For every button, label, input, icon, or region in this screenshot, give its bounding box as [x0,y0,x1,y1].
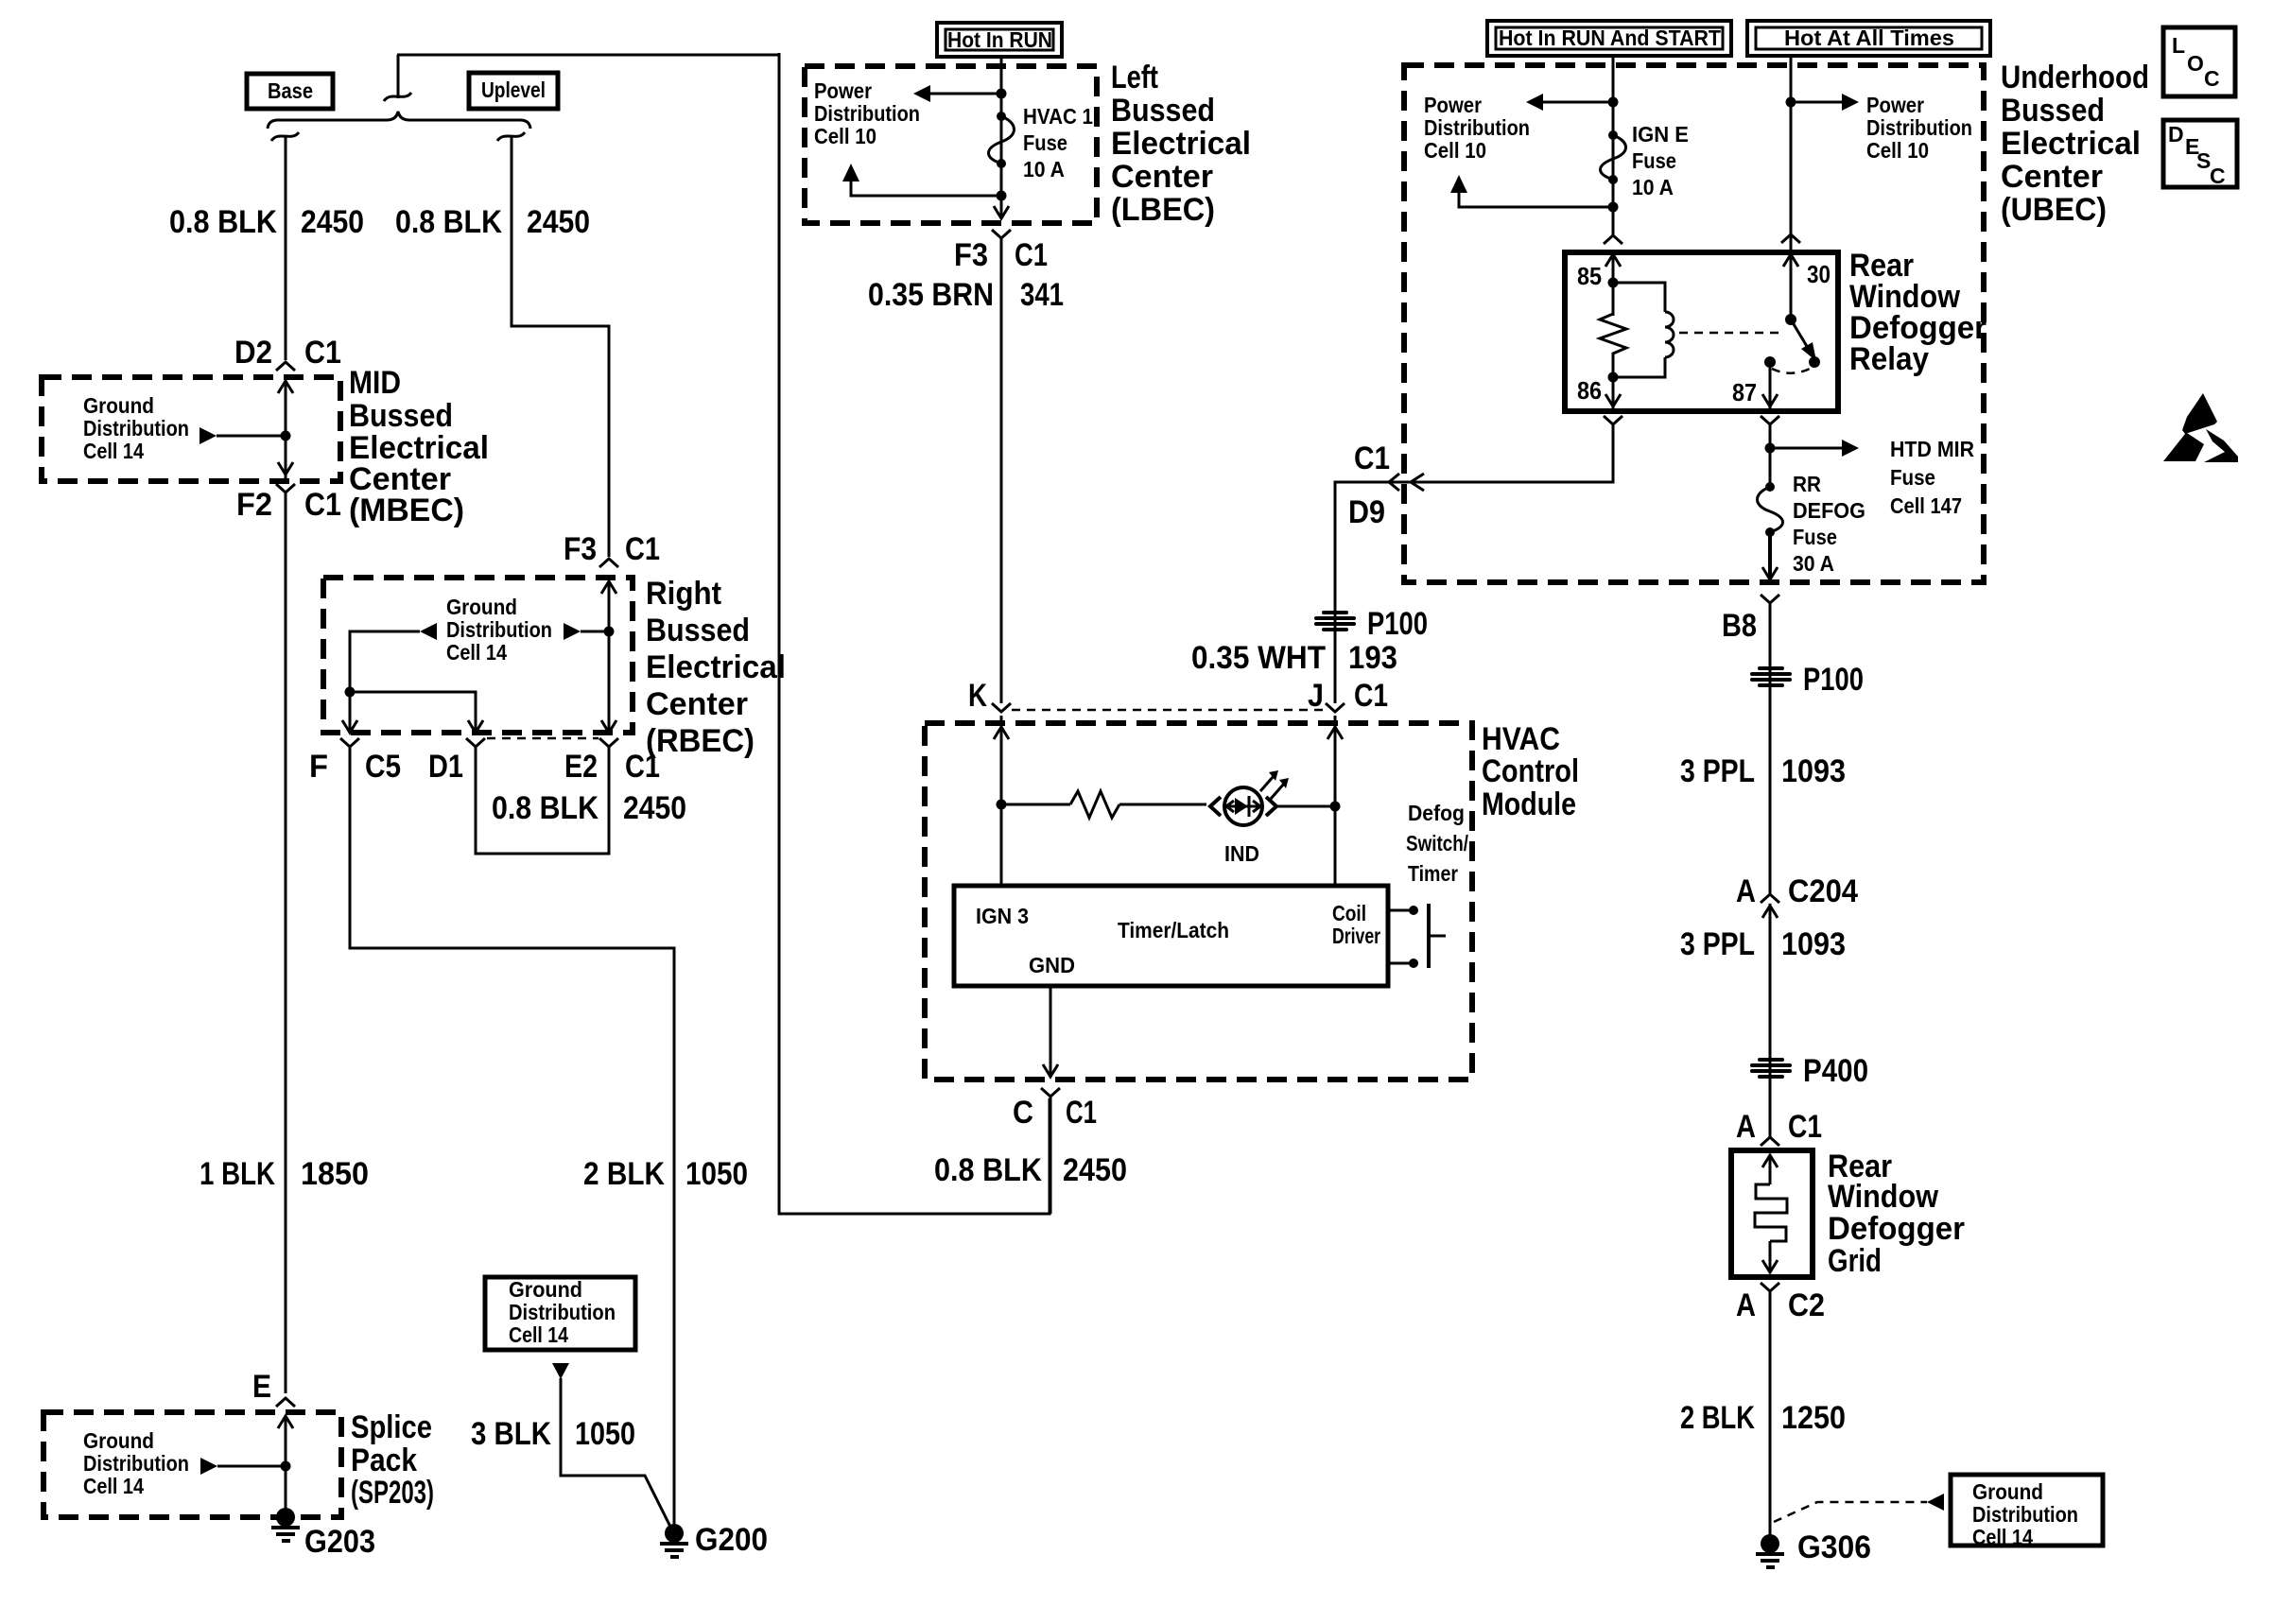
svg-text:0.35 BRN: 0.35 BRN [868,277,994,313]
svg-text:Splice: Splice [351,1409,432,1445]
svg-text:Distribution: Distribution [83,1451,189,1476]
wire jumper E2 to D1 [476,747,609,854]
wire J entering HVAC with arrow [1327,716,1343,886]
svg-text:10 A: 10 A [1023,157,1065,181]
svg-text:Hot In RUN And START: Hot In RUN And START [1499,26,1721,50]
connector arrow D9 into C1 [1411,474,1424,491]
svg-text:Grid: Grid [1828,1243,1882,1279]
svg-text:Left: Left [1111,60,1158,95]
svg-text:341: 341 [1020,277,1064,313]
svg-text:K: K [968,678,987,714]
svg-text:IND: IND [1224,841,1259,866]
fuse IGN E [1601,130,1626,184]
RBEC dashed box [323,578,633,733]
svg-text:1 BLK: 1 BLK [200,1156,275,1192]
relay box [1565,252,1838,411]
connector chevron E [276,1398,295,1407]
wire C204 to grid [1769,904,1772,1137]
inline connector P400 [1750,1058,1792,1079]
wire 2 BLK 1250 to G306 [1769,1291,1772,1541]
relay pin 85 wire with arrow [1605,254,1621,316]
option box Uplevel [469,73,558,109]
svg-text:Cell 10: Cell 10 [1866,138,1929,163]
svg-text:F2: F2 [236,487,272,523]
LOC box [2163,27,2235,96]
svg-text:Control: Control [1482,753,1579,789]
svg-text:Defogger: Defogger [1828,1211,1965,1247]
wire D9 to P100 to HVAC J [1335,482,1411,703]
svg-text:0.8 BLK: 0.8 BLK [934,1152,1042,1188]
junction node K-resistor [997,800,1007,810]
power distribution text (LBEC) [814,78,920,148]
inline connector P100 [1750,666,1792,687]
rear window defogger grid box [1731,1150,1813,1277]
arrow to HTD MIR fuse [1770,440,1859,457]
svg-text:2450: 2450 [301,204,364,240]
wire GND leaving HVAC with arrow [1043,986,1058,1077]
coil driver stub lower [1388,959,1418,968]
svg-text:Driver: Driver [1332,924,1380,948]
svg-text:O: O [2187,51,2204,76]
banner box Hot In RUN And START [1487,21,1731,56]
svg-text:C: C [2210,164,2226,188]
svg-text:E2: E2 [564,749,598,785]
connector chevron D2/C1 [276,362,295,371]
svg-text:3 PPL: 3 PPL [1680,926,1755,962]
thin dashed connector line K-J [1012,709,1326,712]
svg-text:Distribution: Distribution [83,416,189,441]
svg-text:(RBEC): (RBEC) [646,723,755,759]
relay pin 87 wire with arrow [1762,362,1778,409]
svg-text:Electrical: Electrical [2001,126,2141,162]
svg-text:3 BLK: 3 BLK [471,1416,551,1452]
connector chevron C/C1 [1041,1088,1060,1097]
svg-text:Uplevel: Uplevel [481,78,546,102]
junction node IGN E top [1608,97,1619,108]
svg-text:C1: C1 [304,487,341,523]
svg-text:Bussed: Bussed [646,613,750,648]
svg-text:Power: Power [814,78,872,103]
svg-text:Ground: Ground [446,595,517,619]
svg-text:G203: G203 [304,1524,375,1560]
ESD warning symbol [2163,393,2238,462]
fuse label HVAC 1 Fuse 10 A [1023,104,1093,181]
svg-text:B8: B8 [1722,608,1757,644]
svg-text:Right: Right [646,576,721,612]
grid title [1828,1149,1965,1279]
wire 3 BLK to G200 [561,1378,671,1529]
relay coil resistor [1600,288,1626,377]
connector chevron below 86 [1604,416,1622,424]
relay title [1849,248,1987,377]
svg-text:HVAC 1: HVAC 1 [1023,104,1093,129]
svg-text:F3: F3 [954,237,988,273]
svg-text:Cell 14: Cell 14 [1972,1525,2033,1549]
UBEC dashed box [1404,65,1984,582]
wire Uplevel drop to RBEC F3 [512,137,609,557]
svg-text:Distribution: Distribution [1424,115,1530,140]
brace joining Base and Uplevel [268,112,530,129]
arrow leaving RBEC at F [342,720,357,733]
svg-text:10 A: 10 A [1632,175,1674,199]
SP203 dashed box [43,1412,341,1517]
wire 86 to D9/C1 [1388,424,1613,482]
svg-text:Cell 10: Cell 10 [1424,138,1486,163]
connector chevron K [992,703,1011,712]
svg-text:(LBEC): (LBEC) [1111,192,1215,228]
relay armature dashed link [1679,332,1783,335]
svg-text:C1: C1 [1788,1109,1822,1145]
svg-text:G200: G200 [695,1522,768,1558]
label Defog Switch/Timer [1406,801,1468,886]
arrow leaving LBEC bottom [994,206,1009,218]
svg-text:Distribution: Distribution [1866,115,1972,140]
svg-text:Bussed: Bussed [1111,93,1215,129]
svg-text:Window: Window [1828,1179,1938,1215]
junction node 30 top [1786,97,1796,108]
svg-text:Coil: Coil [1332,901,1366,925]
svg-text:DEFOG: DEFOG [1793,498,1865,523]
svg-text:C: C [1013,1095,1033,1131]
svg-text:Cell 14: Cell 14 [83,439,144,463]
svg-text:E: E [252,1369,271,1405]
svg-text:C1: C1 [1066,1095,1097,1131]
power distribution text (UBEC left) [1424,93,1530,163]
RBEC title [646,576,786,759]
junction node 85 [1608,278,1619,288]
svg-text:Power: Power [1866,93,1924,117]
junction node on J wire [1330,802,1341,812]
svg-text:30: 30 [1807,260,1831,288]
option box Base [247,74,333,109]
connector chevron below 87 [1761,416,1779,424]
relay contact 87 [1764,356,1776,368]
svg-text:HVAC: HVAC [1482,721,1560,757]
wire B8 to C204 [1769,603,1772,893]
svg-text:P100: P100 [1367,606,1428,642]
svg-text:Cell 14: Cell 14 [446,640,507,665]
connector chevron E2/C1 [599,738,618,747]
svg-text:2450: 2450 [527,204,590,240]
junction node LBEC top [997,89,1007,99]
LBEC title [1111,60,1251,228]
svg-text:0.8 BLK: 0.8 BLK [492,790,599,826]
branch to power distribution up-arrow (LBEC) [842,164,1001,196]
svg-text:1250: 1250 [1781,1400,1846,1436]
arrow leaving RBEC at D1 [468,720,483,733]
svg-text:J: J [1308,678,1324,714]
svg-text:A: A [1736,873,1756,909]
junction node 86 [1608,372,1619,383]
svg-text:(MBEC): (MBEC) [349,492,464,528]
inline connector P100 (J branch) [1314,611,1356,631]
svg-text:Cell 10: Cell 10 [814,124,876,148]
svg-text:(UBEC): (UBEC) [2001,192,2107,228]
svg-text:Power: Power [1424,93,1482,117]
svg-text:Timer/Latch: Timer/Latch [1118,918,1229,942]
svg-text:IGN 3: IGN 3 [976,904,1029,928]
svg-text:F3: F3 [564,531,597,567]
svg-text:30 A: 30 A [1793,551,1834,576]
wire break tilde Base [271,132,299,141]
svg-text:Hot In RUN: Hot In RUN [947,27,1052,52]
svg-text:C2: C2 [1788,1287,1825,1323]
arrow to power distribution (UBEC left) [1526,94,1613,111]
wire from Hot At All Times [1790,56,1793,234]
svg-text:1050: 1050 [575,1416,635,1452]
svg-text:Defog: Defog [1408,801,1465,825]
svg-text:Center: Center [1111,159,1213,195]
svg-text:2 BLK: 2 BLK [1680,1400,1755,1436]
arrow to power distribution (UBEC right) [1791,94,1859,111]
wire IND to J [1277,805,1335,808]
svg-text:Bussed: Bussed [2001,93,2105,129]
svg-text:Distribution: Distribution [814,101,920,126]
wire stub above brace center [397,55,400,98]
fuse label IGN E Fuse 10 A [1632,122,1689,199]
UBEC title [2001,60,2149,228]
dashed link to ground distribution (G306) [1774,1494,1944,1522]
svg-text:Module: Module [1482,786,1576,822]
connector chevron A/C1 grid [1761,1137,1779,1146]
junction node below fuse (LBEC) [997,191,1007,201]
junction node below IGN E fuse [1608,202,1619,213]
ground distribution text (SP203) [83,1428,189,1498]
wire Base drop to MBEC [285,137,287,360]
connector chevron J [1326,703,1345,712]
timer/latch box [954,886,1388,986]
connector A/C204 [1761,894,1779,918]
ground distribution text (MBEC) [83,393,189,463]
branch to power distribution up-arrow (UBEC) [1450,175,1613,207]
svg-text:F: F [309,749,328,785]
banner box Hot In RUN [937,23,1062,57]
ground G200 [660,1524,688,1557]
svg-text:D: D [2168,122,2184,147]
splice pack title [351,1409,434,1511]
svg-text:L: L [2172,33,2185,58]
svg-text:P400: P400 [1803,1053,1868,1089]
connector chevron B8 [1761,595,1779,603]
relay pin 86 wire with arrow [1605,377,1621,409]
svg-text:C1: C1 [304,335,341,371]
svg-text:Switch/: Switch/ [1406,831,1468,855]
svg-text:C1: C1 [1015,237,1048,273]
svg-text:D9: D9 [1348,494,1385,530]
svg-text:Cell 147: Cell 147 [1890,493,1962,518]
svg-text:Base: Base [268,78,313,103]
svg-text:D1: D1 [428,749,463,785]
arrow to ground distribution (SP203) [200,1458,291,1475]
connector chevron 85 input [1604,235,1622,244]
svg-text:G306: G306 [1797,1529,1871,1565]
svg-text:A: A [1736,1109,1756,1145]
coil driver stub upper [1388,906,1418,915]
svg-text:2450: 2450 [623,790,686,826]
svg-text:Distribution: Distribution [1972,1502,2078,1527]
resistor (IND feed) [1001,791,1206,818]
defog switch button [1429,904,1446,968]
relay coil [1613,283,1674,377]
connector chevron F3/C1 RBEC [599,559,618,567]
svg-text:Relay: Relay [1849,341,1929,377]
MBEC dashed box [42,377,340,481]
svg-text:C204: C204 [1788,873,1858,909]
svg-text:Ground: Ground [509,1277,582,1302]
svg-text:Ground: Ground [1972,1479,2043,1504]
wire F/C5 down to G200 [350,747,674,1529]
MBEC title [349,365,489,528]
svg-text:Ground: Ground [83,393,154,418]
svg-text:Bussed: Bussed [349,398,453,434]
arrow leaving RBEC at E2 [601,720,616,733]
connector chevron F2/C1 [276,484,295,492]
fuse RR DEFOG [1758,482,1783,537]
LBEC dashed box [805,66,1097,223]
indicator lamp IND [1210,770,1289,825]
fuse HVAC 1 [989,112,1015,168]
junction node inside RBEC [345,687,477,734]
arrow to power distribution (LBEC) [913,85,1001,102]
svg-text:1050: 1050 [685,1156,748,1192]
svg-text:Fuse: Fuse [1023,130,1067,155]
wire break tilde above brace [384,93,411,101]
thin dashed connector line D1-E2 [487,737,599,740]
svg-text:Cell 14: Cell 14 [83,1474,144,1498]
svg-text:193: 193 [1348,640,1397,676]
label RR DEFOG Fuse 30 A [1793,472,1865,576]
wire entering RBEC with arrow [601,581,616,733]
svg-text:0.8 BLK: 0.8 BLK [395,204,502,240]
wire K entering HVAC with arrow [994,716,1009,886]
svg-text:GND: GND [1029,953,1075,977]
svg-text:Distribution: Distribution [509,1300,616,1324]
arrow left to ground distribution (RBEC) [350,623,437,692]
wire from Hot In RUN And START [1612,56,1615,235]
wire ground loop (0.8 BLK 2450 return to splice) [779,53,1050,1214]
svg-text:2450: 2450 [1063,1152,1127,1188]
svg-text:C1: C1 [1354,678,1388,714]
svg-text:Distribution: Distribution [446,617,552,642]
svg-text:Center: Center [2001,159,2103,195]
wire Base main drop [285,492,287,1393]
svg-text:0.8 BLK: 0.8 BLK [169,204,277,240]
svg-text:(SP203): (SP203) [351,1475,434,1511]
power distribution text (UBEC right) [1866,93,1972,163]
connector chevron D1 [466,738,485,747]
svg-text:86: 86 [1577,376,1602,405]
svg-text:Center: Center [646,686,748,722]
svg-text:1093: 1093 [1781,926,1846,962]
label HTD MIR Fuse Cell 147 [1890,437,1974,518]
svg-text:MID: MID [349,365,401,401]
junction node 87 to HTD MIR [1765,443,1776,454]
svg-text:Cell 14: Cell 14 [509,1322,568,1347]
connector chevron 30 input [1781,234,1800,243]
wire entering SP203 with arrow [278,1416,293,1517]
svg-text:A: A [1736,1287,1756,1323]
ground G203 [271,1508,300,1541]
svg-text:Electrical: Electrical [1111,126,1251,162]
svg-text:HTD MIR: HTD MIR [1890,437,1974,461]
svg-text:0.35 WHT: 0.35 WHT [1191,640,1326,676]
wire top horizontal run [397,54,779,57]
connector chevron D9 [1389,474,1399,491]
svg-text:C5: C5 [365,749,401,785]
svg-text:Fuse: Fuse [1632,148,1676,173]
svg-text:2 BLK: 2 BLK [583,1156,665,1192]
HVAC control module dashed box [925,723,1472,1080]
svg-text:Ground: Ground [83,1428,154,1453]
HVAC title [1482,721,1579,822]
svg-text:87: 87 [1732,378,1757,406]
wire entering MBEC with arrow [278,381,293,481]
ground distribution box (G306) [1951,1475,2103,1549]
wire C to ground loop [1050,1097,1052,1214]
connector chevron A/C2 [1761,1283,1779,1291]
grid element [1755,1155,1787,1272]
svg-text:Timer: Timer [1408,861,1458,886]
ground G306 [1756,1534,1784,1567]
svg-text:Electrical: Electrical [646,649,786,685]
svg-text:Underhood: Underhood [2001,60,2149,95]
svg-text:P100: P100 [1803,662,1864,698]
svg-text:Hot At All Times: Hot At All Times [1784,26,1954,50]
arrow leaving MBEC bottom [278,462,293,475]
svg-text:Fuse: Fuse [1890,465,1935,490]
svg-text:RR: RR [1793,472,1821,496]
connector chevron F/C5 [340,738,359,747]
svg-text:Fuse: Fuse [1793,525,1837,549]
svg-text:C1: C1 [625,531,660,567]
relay pin 30 wire with arrow and switch [1783,231,1820,368]
arrow right from ground distribution (RBEC) [564,623,615,640]
svg-text:C1: C1 [1354,441,1390,476]
wire 0.35 BRN 341 to HVAC K [1000,238,1003,703]
svg-text:C: C [2204,66,2220,91]
svg-text:3 PPL: 3 PPL [1680,753,1755,789]
svg-text:1850: 1850 [301,1156,369,1192]
dashed throw arc 87 [1772,368,1812,373]
svg-text:Pack: Pack [351,1443,417,1478]
svg-text:1093: 1093 [1781,753,1846,789]
svg-text:IGN E: IGN E [1632,122,1689,147]
ground distribution box (G200) [485,1277,635,1350]
svg-text:85: 85 [1577,262,1602,290]
connector chevron F3/C1 LBEC [992,230,1011,238]
arrow from ground distribution box [552,1363,569,1379]
arrow to ground distribution (MBEC) [200,427,291,444]
svg-text:D2: D2 [234,335,272,371]
ground distribution text (RBEC) [446,595,552,665]
banner box Hot At All Times [1747,21,1990,56]
wire break tilde Uplevel [497,132,525,141]
wire RR DEFOG fuse to UBEC edge with arrow [1762,532,1778,579]
wire banner into LBEC [1000,57,1003,218]
wire 87 down from relay [1769,424,1772,487]
DESC box [2163,120,2237,188]
